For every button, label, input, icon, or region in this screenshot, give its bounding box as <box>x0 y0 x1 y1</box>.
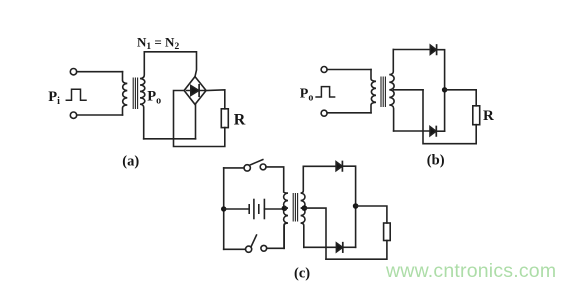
transformer T1 primary winding (a) <box>122 72 127 115</box>
svg-text:www.cntronics.com: www.cntronics.com <box>385 260 556 282</box>
diode D2 triangle (b) <box>430 127 436 136</box>
svg-text:(c): (c) <box>294 266 310 282</box>
pulse symbol (b) <box>316 87 335 97</box>
wire secondary top rail (b) <box>393 49 430 51</box>
wire bridge bottom (a) <box>195 104 197 138</box>
wire node to R top (b) <box>445 90 477 106</box>
svg-text:R: R <box>234 112 246 129</box>
diode D3 triangle (c) <box>336 162 342 171</box>
switch S1 left contact (c) <box>244 165 250 171</box>
transformer T2 core (b) <box>381 77 385 107</box>
transformer T1 secondary winding (a) <box>140 52 145 139</box>
bridge diode lead (a) <box>187 90 205 92</box>
primary center tap dot (c) <box>282 206 288 212</box>
wire R bottom to tap (b) <box>423 90 476 144</box>
wire bottom rail left (c) <box>224 248 246 250</box>
wire node to R top (c) <box>356 206 387 223</box>
wire bridge right to R (a) <box>206 90 225 109</box>
resistor R (a) <box>221 109 228 128</box>
wire bottom rail right (c) <box>267 225 285 249</box>
transformer T2 primary winding (b) <box>371 70 376 113</box>
wire battery left (c) <box>224 208 249 210</box>
wire secondary tap (c) <box>304 208 326 259</box>
svg-text:Pi: Pi <box>48 89 60 107</box>
node junction (c) <box>353 203 359 209</box>
transformer T1 core (a) <box>133 78 137 109</box>
diode D4 triangle (c) <box>336 243 342 252</box>
svg-text:R: R <box>483 108 494 124</box>
svg-text:(a): (a) <box>122 154 139 170</box>
switch S2 lever (c) <box>251 235 256 247</box>
resistor R (c) <box>384 223 391 241</box>
wire D4 to node vertical (c) <box>343 246 356 248</box>
transformer T3 primary winding (c) <box>284 192 288 248</box>
bridge diode bar (a) <box>198 85 200 96</box>
transformer T3 secondary winding (c) <box>301 166 305 247</box>
terminal top-left (a) <box>70 69 76 75</box>
secondary center tap dot (c) <box>302 205 308 211</box>
wire D3 to node (c) <box>342 166 355 247</box>
wire bottom input (a) <box>77 114 123 116</box>
terminal top-left (b) <box>321 67 327 73</box>
switch S1 right contact (c) <box>260 164 266 170</box>
wire battery right to tap (c) <box>264 208 284 210</box>
svg-text:Po: Po <box>300 87 314 104</box>
svg-text:N1 = N2: N1 = N2 <box>137 34 179 52</box>
bridge diode triangle (a) <box>191 86 199 96</box>
diode D2 bar (b) <box>435 127 437 136</box>
svg-text:Po: Po <box>147 89 161 107</box>
diode D4 bar (c) <box>342 243 344 252</box>
wire center tap (b) <box>394 89 423 91</box>
wire top rail right (c) <box>266 167 284 192</box>
node junction (b) <box>442 87 447 92</box>
wire top input (b) <box>327 69 371 71</box>
wire bottom rail secondary to bridge (a) <box>144 138 196 140</box>
battery plate long 2 (c) <box>263 200 265 219</box>
wire R bottom to bridge left (a) <box>174 91 225 147</box>
bridge diamond (a) <box>184 77 206 105</box>
resistor R (b) <box>473 106 480 125</box>
diode D1 bar (b) <box>436 45 438 54</box>
wire top input (a) <box>77 71 123 73</box>
wire top rail left (c) <box>224 167 244 169</box>
battery plate short 2 (c) <box>258 205 260 213</box>
wire left rail (c) <box>223 168 225 249</box>
switch S2 left contact (c) <box>246 246 252 252</box>
wire R bottom rail (c) <box>326 241 387 260</box>
wire secondary bottom rail (c) <box>304 246 337 248</box>
terminal bottom-left (a) <box>70 112 76 118</box>
switch S1 lever (c) <box>250 160 263 166</box>
battery plate long 1 (c) <box>253 200 255 219</box>
svg-text:(b): (b) <box>427 153 445 169</box>
switch S2 right contact (c) <box>261 245 267 251</box>
wire D2 to node vertical (b) <box>436 130 444 132</box>
wire secondary top rail (c) <box>303 165 336 167</box>
battery plate short 1 (c) <box>248 205 250 213</box>
transformer T2 secondary winding (b) <box>389 50 394 132</box>
junction dot left rail (c) <box>221 206 226 211</box>
wire secondary top to bridge (a) <box>144 52 196 77</box>
diode D1 triangle (b) <box>430 45 436 54</box>
wire bottom input (b) <box>327 112 371 114</box>
diode D3 bar (c) <box>341 162 343 171</box>
terminal bottom-left (b) <box>321 110 327 116</box>
wire secondary bottom rail (b) <box>394 130 430 132</box>
transformer T3 core (c) <box>293 194 297 222</box>
pulse symbol (a) <box>66 89 86 100</box>
wire D1 to node (b) <box>437 50 445 131</box>
